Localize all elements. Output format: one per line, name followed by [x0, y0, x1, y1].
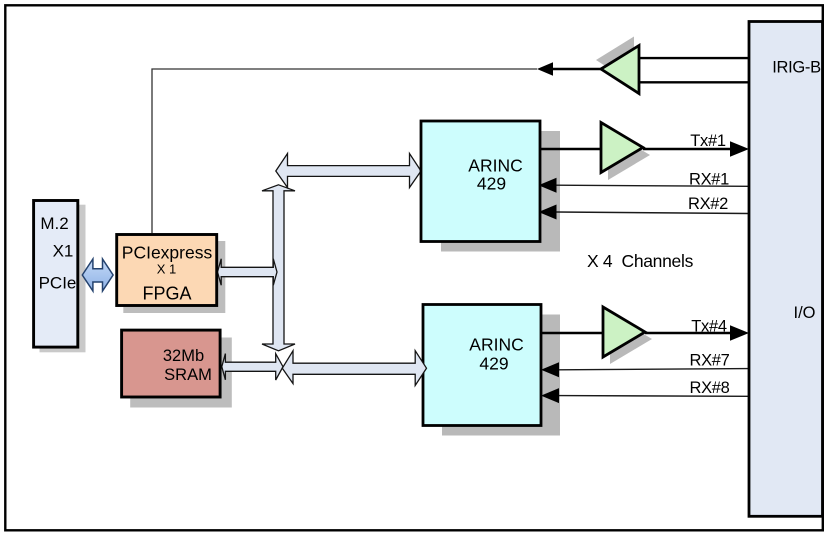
bus arrow: vertical internal bus (double-headed block arrow) [262, 185, 295, 351]
shadow of ARINC 429 box U1 [441, 131, 560, 252]
arrowhead RX#8 into ARINC U2 [541, 388, 559, 403]
arrowhead on IRIG-B wire (pointing left) [537, 62, 553, 75]
svg-text:X 1: X 1 [157, 262, 177, 277]
svg-text:RX#7: RX#7 [689, 352, 729, 370]
svg-text:SRAM: SRAM [164, 366, 212, 384]
wire: IRIG-B pair upper line from I/O connector to buffer [639, 57, 749, 59]
svg-text:ARINC: ARINC [468, 156, 522, 176]
box: ARINC 429 U1 (upper) [421, 121, 540, 242]
arrowhead RX#1 into ARINC U1 [539, 178, 557, 193]
wire: Tx#1 from ARINC U1 to buffer U4 [540, 148, 602, 151]
svg-text:I/O: I/O [793, 304, 815, 322]
box: ARINC 429 U2 (lower) [423, 305, 541, 426]
buffer U4: Tx#1 line driver (right-pointing triangle) with shadow [601, 123, 650, 181]
svg-text:PCIexpress: PCIexpress [122, 243, 213, 263]
svg-text:Tx#1: Tx#1 [690, 132, 726, 150]
svg-text:RX#1: RX#1 [689, 171, 729, 189]
wire: IRIG-B signal from buffer to FPGA (horizontal + vertical segments) [152, 69, 537, 233]
wire: thick segment from IRIG buffer tip to arrowhead [551, 68, 602, 71]
svg-text:32Mb: 32Mb [163, 347, 204, 365]
wire: Tx#1 from buffer U4 to I/O connector [643, 148, 740, 151]
svg-text:429: 429 [479, 354, 508, 374]
svg-text:IRIG-B: IRIG-B [772, 59, 821, 77]
svg-text:X1: X1 [53, 242, 74, 261]
svg-text:M.2: M.2 [40, 214, 68, 233]
bus arrow: FPGA to internal bus (small double-headed block arrow) [218, 259, 278, 285]
connector arrow: PCIe link between M.2 and FPGA (blue double arrow) [82, 259, 113, 291]
wire: RX#8 from I/O connector to ARINC U2 [558, 395, 748, 398]
wire: RX#2 from I/O connector to ARINC U1 [556, 212, 748, 214]
shadow of M.2 box [40, 205, 86, 353]
bus arrow: internal bus to ARINC U2 (double-headed block arrow) [282, 351, 426, 386]
shadow of ARINC 429 box U2 [442, 315, 560, 436]
svg-text:X 4 Channels: X 4 Channels [587, 251, 694, 271]
svg-text:429: 429 [477, 174, 506, 194]
shadow of FPGA box [123, 241, 225, 313]
svg-text:RX#8: RX#8 [689, 379, 729, 397]
shadow of SRAM box [130, 338, 232, 408]
wire: IRIG-B pair lower line from I/O connector to buffer [639, 81, 749, 83]
svg-text:RX#2: RX#2 [688, 195, 728, 213]
svg-text:Tx#4: Tx#4 [691, 318, 727, 336]
bus arrow: SRAM to internal bus (small double-headed block arrow) [222, 354, 283, 380]
box: PCIexpress X1 FPGA [117, 235, 217, 306]
arrowhead RX#7 into ARINC U2 [541, 362, 559, 377]
arrowhead RX#2 into ARINC U1 [539, 205, 557, 220]
box: M.2 X1 PCIe module [34, 201, 78, 348]
wire: Tx#4 from buffer U5 to I/O connector [645, 332, 740, 335]
svg-text:ARINC: ARINC [469, 335, 523, 355]
svg-text:PCIe: PCIe [39, 274, 77, 293]
arrowhead Tx#1 into I/O connector [730, 141, 749, 157]
arrowhead Tx#4 into I/O connector [730, 325, 749, 341]
svg-text:FPGA: FPGA [142, 284, 191, 304]
wire: RX#7 from I/O connector to ARINC U2 [558, 369, 748, 370]
box: I/O connector panel with IRIG-B [749, 22, 823, 517]
box: 32Mb SRAM [122, 330, 221, 397]
bus arrow: horizontal bus to ARINC U1 (double-headed block arrow) [276, 154, 421, 188]
buffer U5: Tx#4 line driver (right-pointing triangle) with shadow [603, 307, 652, 364]
buffer U3: IRIG-B receive buffer (left-pointing triangle) with shadow [596, 37, 639, 94]
wire: RX#1 from I/O connector to ARINC U1 [556, 185, 748, 186]
wire: Tx#4 from ARINC U2 to buffer U5 [541, 332, 604, 335]
